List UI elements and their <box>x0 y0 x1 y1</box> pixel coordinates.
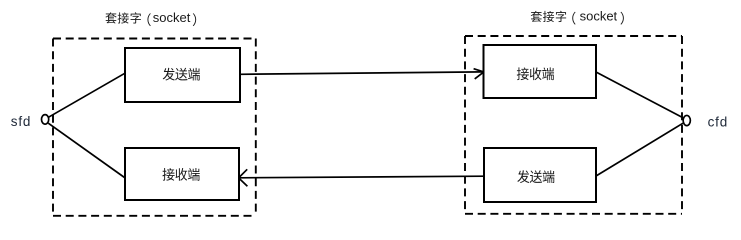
node sfd circle <box>42 115 49 125</box>
svg-text:sfd: sfd <box>11 114 31 129</box>
box R1 接收端 (receive) <box>484 45 597 98</box>
arrow wire L1 send -> R1 receive <box>240 72 483 74</box>
left socket title 套接字（socket） <box>105 10 196 26</box>
right socket title 套接字（socket） <box>531 9 624 25</box>
right socket dashed box <box>465 36 682 214</box>
svg-text:socket: socket <box>153 10 191 25</box>
node cfd circle <box>683 115 690 125</box>
box L1 发送端 (send) <box>125 48 240 102</box>
svg-text:cfd: cfd <box>708 114 728 129</box>
svg-text:socket: socket <box>580 9 618 24</box>
box R2 发送端 (send) <box>484 148 596 202</box>
wire R1 to cfd <box>596 72 683 118</box>
box L2 接收端 (receive) <box>125 148 239 200</box>
left socket dashed box <box>53 39 256 216</box>
wire sfd to L1 <box>49 73 125 117</box>
arrowhead right <box>474 69 484 79</box>
wire cfd to R2 <box>596 123 683 176</box>
arrow wire R2 send -> L2 receive <box>240 176 484 178</box>
wire sfd to L2 <box>48 123 124 177</box>
arrowhead left <box>239 169 248 186</box>
